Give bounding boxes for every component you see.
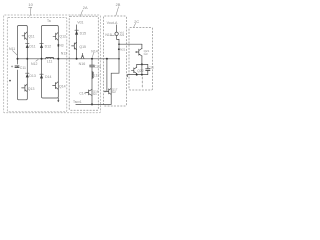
outer dashed box 10 [4, 15, 101, 113]
wire from node N21 down to Q17 drain [111, 44, 119, 104]
svg-text:L12: L12 [94, 73, 100, 77]
return wire y104 [76, 103, 111, 105]
diode D15 [75, 30, 78, 34]
svg-text:2C: 2C [134, 19, 139, 24]
leader 2A [80, 10, 83, 16]
svg-text:D12: D12 [45, 45, 51, 49]
svg-text:C11: C11 [20, 66, 26, 70]
svg-text:N21: N21 [120, 48, 126, 52]
label 2A [83, 5, 88, 10]
capacitor C13 [90, 65, 95, 67]
dashed box right 2C [129, 28, 153, 91]
transistor Q22 branch [136, 64, 138, 74]
svg-text:Q14: Q14 [59, 85, 66, 89]
node label under wire [79, 62, 86, 66]
terminal wire [116, 25, 118, 32]
svg-text:Q12: Q12 [59, 34, 66, 38]
dashed box Vout-A [104, 16, 127, 106]
svg-text:L11: L11 [47, 59, 53, 63]
label N12 [31, 62, 37, 66]
label 2B [116, 2, 121, 7]
svg-text:2B: 2B [116, 2, 121, 7]
svg-text:N16: N16 [79, 62, 86, 66]
bottom wire right box [128, 74, 148, 76]
svg-text:Vout-A: Vout-A [107, 21, 118, 25]
label N3 [59, 43, 63, 47]
diode D12 [40, 44, 43, 48]
node dot on left rail [9, 80, 11, 82]
svg-text:2A: 2A [83, 5, 88, 10]
leader N11 [13, 51, 18, 56]
loop1 wire rectangle [18, 26, 28, 100]
inner dashed box right [69, 16, 98, 110]
svg-text:A21: A21 [120, 33, 125, 37]
branch C13 L12 [91, 59, 93, 105]
svg-text:Q11: Q11 [28, 34, 34, 38]
inductor L12 [92, 72, 93, 78]
svg-text:C13: C13 [94, 65, 100, 69]
transistor Q11 [22, 32, 27, 40]
wire from circle down and right [117, 36, 119, 45]
transistor Q15 [72, 42, 77, 50]
loop2 wire rectangle [42, 26, 59, 99]
Vout-A label [107, 21, 118, 25]
leader N14 [92, 53, 93, 58]
two-line text right of circle [120, 31, 125, 35]
svg-text:10: 10 [28, 2, 33, 7]
junction dots on main wire at D-branch and leg2 [41, 58, 43, 60]
diode D14 [40, 74, 43, 78]
svg-text:Q15: Q15 [79, 45, 86, 49]
svg-text:Ta: Ta [47, 19, 51, 23]
label N13 [61, 51, 67, 55]
gate drive wire from node to Q17 [106, 58, 108, 60]
leader N12 [36, 59, 39, 61]
svg-text:N11: N11 [9, 47, 15, 51]
svg-text:D13: D13 [29, 74, 35, 78]
label Vd1 [77, 21, 83, 25]
ground arrow below loop2 [57, 98, 59, 101]
capacitor C22 branch [147, 64, 149, 74]
svg-text:G3: G3 [144, 52, 148, 56]
svg-text:Q22: Q22 [137, 69, 144, 73]
leader 2C [134, 23, 136, 27]
junction dot branch to return wire [91, 103, 93, 105]
leader 10 [30, 7, 32, 16]
label N14 [91, 49, 97, 53]
Q21 vertical to node [141, 44, 143, 64]
main wire y58.8 [18, 58, 120, 60]
transistor Q14 [53, 82, 59, 90]
svg-text:C22: C22 [148, 66, 154, 70]
inductor L11 [46, 57, 54, 58]
diode D11 [26, 44, 29, 48]
wire Vd1 leg [76, 25, 78, 59]
plus mark [11, 66, 13, 68]
svg-text:N13: N13 [61, 51, 67, 55]
terminal circle N15 [115, 32, 118, 35]
svg-text:C14: C14 [79, 92, 86, 96]
transistor Q12 [53, 32, 58, 40]
label N11 [9, 47, 15, 51]
label 2C [134, 19, 139, 24]
label 10 [28, 2, 33, 7]
svg-text:Q13: Q13 [28, 87, 35, 91]
svg-text:N3: N3 [59, 43, 63, 47]
junction dot node N3 on leg2 [58, 44, 60, 47]
svg-text:D11: D11 [29, 44, 35, 48]
wire node to C22 [137, 63, 148, 65]
junction node N11 on loop1 left rail [17, 58, 19, 60]
svg-text:D15: D15 [80, 31, 86, 35]
svg-text:N14: N14 [91, 49, 97, 53]
junction dot Vd1 leg to main wire [76, 58, 78, 60]
label Ta above loop2 [47, 19, 51, 23]
inner dashed box left [7, 18, 67, 112]
wire Q21 leg to bottom rail [141, 64, 143, 74]
svg-text:G1: G1 [93, 92, 97, 96]
current arrow on main wire [81, 53, 84, 58]
transistor T16 [86, 89, 92, 95]
svg-text:G2: G2 [112, 90, 116, 94]
label Tscv1 [73, 100, 82, 104]
leader 2B [116, 7, 119, 16]
svg-text:N15: N15 [105, 33, 111, 37]
svg-text:N12: N12 [31, 62, 37, 66]
diode D13 [26, 73, 29, 77]
dashed stub below Q22 node [141, 77, 143, 87]
capacitor C11 [17, 65, 19, 69]
svg-text:Tscv1: Tscv1 [73, 100, 82, 104]
junction node N12 on leg1 [26, 58, 28, 60]
transistor Q21 [136, 48, 142, 56]
svg-text:D14: D14 [45, 75, 51, 79]
transistor T17 [106, 88, 111, 94]
transistor Q13 [22, 84, 28, 92]
svg-text:Vd1: Vd1 [77, 21, 83, 25]
